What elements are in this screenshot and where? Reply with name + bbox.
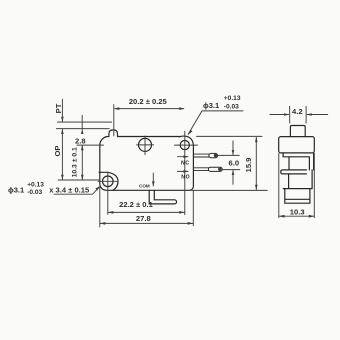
PT / OP dimension column (61, 99, 63, 180)
svg-text:ϕ3.1: ϕ3.1 (8, 185, 25, 194)
svg-text:2.8: 2.8 (75, 137, 86, 146)
svg-text:NO: NO (181, 175, 190, 181)
side view bottom block (285, 189, 310, 204)
dim 6.0 dimension line (232, 141, 234, 185)
svg-text:NC: NC (181, 161, 190, 167)
dim 10.3 dimension line (81, 146, 83, 180)
dim 10.3 side extension lines (279, 154, 315, 218)
dim 10.3 top extension line (77, 144, 104, 146)
svg-text:27.8: 27.8 (136, 214, 151, 223)
switch body outline (100, 130, 194, 190)
leader line phi3.1 bottom-left (54, 187, 99, 194)
dim 27.8 right extension line (192, 191, 194, 226)
svg-text:x 3.4 ± 0.15: x 3.4 ± 0.15 (49, 185, 90, 194)
svg-text:6.0: 6.0 (229, 159, 240, 168)
svg-text:20.2 ± 0.25: 20.2 ± 0.25 (129, 97, 168, 106)
COM terminal L-shape (149, 190, 176, 204)
svg-text:ϕ3.1: ϕ3.1 (203, 101, 220, 110)
bottom-left hole (103, 176, 114, 187)
side view terminal tab (281, 170, 307, 174)
dim 27.8 dimension line (100, 222, 193, 224)
dim 4.2 extension lines (290, 106, 306, 123)
centerline / extension line bottom-left hole (98, 172, 117, 214)
lever operating-position line (56, 128, 109, 130)
centerline / extension line top-right hole (175, 131, 198, 214)
dim 20.2 dimension line (115, 108, 184, 110)
dim 20.2 left extension line (113, 105, 115, 136)
svg-text:+0.13: +0.13 (224, 95, 241, 102)
side view top block (279, 137, 315, 153)
svg-text:COM: COM (139, 184, 150, 189)
dim 10.3 / OP bottom extension line (58, 179, 100, 181)
svg-text:-0.03: -0.03 (224, 104, 239, 111)
svg-text:10.3 ± 0.1: 10.3 ± 0.1 (71, 147, 78, 177)
dim 2.8 arrow column (81, 115, 83, 129)
svg-text:-0.03: -0.03 (27, 189, 42, 196)
side view (279, 126, 315, 204)
svg-text:+0.13: +0.13 (27, 181, 44, 188)
leader line phi3.1 top (188, 111, 243, 134)
dim 6.0 extension lines (218, 155, 240, 169)
svg-text:10.3: 10.3 (290, 207, 305, 216)
svg-text:15.9: 15.9 (244, 158, 253, 173)
NC terminal pin (194, 154, 210, 157)
NO leader arrow (177, 170, 188, 172)
svg-text:4.2: 4.2 (292, 107, 303, 116)
dim 4.2 arrow lines (270, 114, 328, 116)
centerline top-centre hole (137, 136, 154, 155)
side view step under top block (283, 153, 314, 170)
COM leader arrow (152, 173, 154, 186)
side view lower block (283, 170, 312, 189)
side view plunger (290, 126, 305, 137)
dim 15.9 extension lines (189, 136, 267, 190)
bottom-left slot boss (99, 172, 118, 190)
top-right hole (180, 141, 189, 150)
lever free-position line (57, 121, 111, 123)
svg-text:22.2 ± 0.1: 22.2 ± 0.1 (119, 200, 153, 209)
NO terminal pin (194, 168, 209, 171)
dim 22.2 dimension line (108, 211, 185, 213)
svg-text:OP: OP (53, 146, 62, 157)
top-centre hole (139, 138, 152, 151)
dim 10.3 side dimension line (279, 215, 314, 217)
dim 15.9 dimension line (255, 137, 257, 189)
NC leader arrow (177, 156, 188, 158)
dim 22.2 left extension continuation (99, 187, 101, 227)
svg-text:PT: PT (54, 103, 63, 113)
